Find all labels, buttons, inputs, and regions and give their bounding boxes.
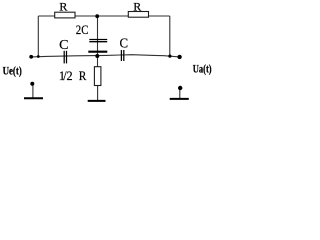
svg-text:C: C <box>59 37 68 52</box>
svg-text:C: C <box>120 36 129 51</box>
svg-text:2: 2 <box>67 69 73 83</box>
svg-text:R: R <box>59 0 67 14</box>
svg-text:R: R <box>79 69 87 83</box>
svg-text:Ue(t): Ue(t) <box>3 66 22 78</box>
svg-text:Ua(t): Ua(t) <box>193 63 212 75</box>
svg-text:R: R <box>133 0 141 14</box>
svg-text:2C: 2C <box>76 23 89 37</box>
